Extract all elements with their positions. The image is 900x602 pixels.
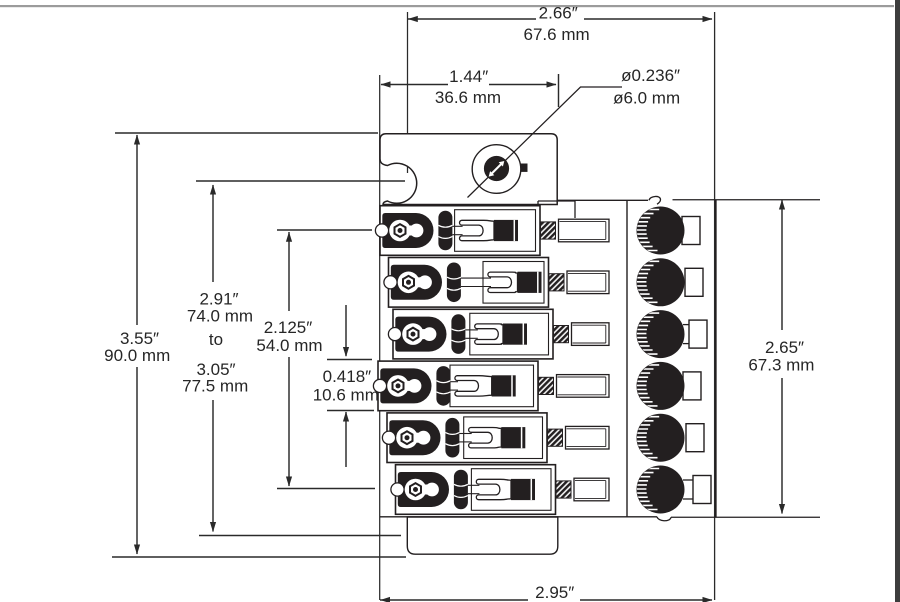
saddle row 2 clamp — [391, 265, 442, 300]
saddle row 6 lock pill — [454, 470, 468, 510]
saddle row 3 tuner screw stub — [572, 323, 610, 346]
plate right shoulder step — [537, 201, 539, 205]
saddle row 1 left screw bump — [375, 224, 388, 237]
saddle row 5 lock pill — [445, 418, 459, 458]
housing top line — [557, 199, 648, 201]
saddle row 5 fork — [469, 428, 502, 448]
dim 0.418in — [345, 305, 347, 356]
svg-text:67.6 mm: 67.6 mm — [524, 25, 590, 44]
svg-text:67.3 mm: 67.3 mm — [748, 356, 814, 375]
fine tuner 6 knob — [637, 466, 685, 514]
extension line right x713 — [714, 12, 716, 600]
saddle row 1 string block — [494, 220, 518, 241]
saddle row 1 base box — [380, 206, 540, 256]
saddle row 6 left screw bump — [391, 483, 404, 496]
saddle row 5 knurled insert — [548, 429, 563, 446]
fine tuner 5 knob — [637, 414, 685, 462]
saddle row 1 keyhole slot — [389, 220, 411, 242]
saddle row 6 hex socket — [410, 483, 421, 496]
saddle row 6 keyhole slot — [405, 479, 427, 501]
fine tuner 3 square — [689, 320, 707, 348]
saddle row 6 base box — [396, 465, 556, 515]
tuner screw curl bottom — [657, 517, 671, 521]
knurl ticks — [632, 210, 659, 251]
page right dark bar — [895, 0, 900, 602]
fine tuner 3 knob — [637, 310, 685, 358]
page top grey rule — [0, 5, 894, 7]
saddle row 2 string block — [518, 272, 542, 293]
saddle row 5 clamp — [389, 420, 440, 455]
dim 2.95in bottom — [380, 599, 528, 601]
saddle row 2 keyhole slot — [398, 272, 420, 294]
tuner screw curl top — [649, 196, 661, 204]
saddle row 1 string lines — [452, 225, 462, 227]
svg-text:ø6.0 mm: ø6.0 mm — [613, 88, 680, 107]
saddle row 1 knurled insert — [541, 222, 556, 239]
fine tuner 2 square — [685, 268, 703, 296]
leader line to hole label — [468, 87, 623, 198]
svg-text:ø0.236″: ø0.236″ — [621, 66, 680, 85]
saddle row 6 string block — [511, 479, 535, 500]
saddle row 3 lock pill — [451, 314, 465, 354]
dim 3.55in left — [136, 135, 138, 325]
saddle row 5 keyhole slot — [396, 427, 418, 449]
fine tuner 4 knob — [637, 362, 685, 410]
svg-text:2.65″: 2.65″ — [765, 338, 804, 357]
saddle row 4 base box — [378, 361, 538, 411]
white double arrow in hole — [492, 164, 502, 174]
saddle row 6 clamp — [398, 472, 449, 507]
svg-text:36.6 mm: 36.6 mm — [435, 88, 501, 107]
saddle row 3 clamp — [395, 317, 446, 352]
saddle row 5 string block — [501, 427, 525, 448]
fine tuner 2 knob — [637, 258, 685, 306]
saddle row 6 fork — [476, 479, 511, 499]
dim 1.44in — [381, 84, 448, 86]
saddle row 3 keyhole slot — [402, 323, 424, 345]
sustain block — [407, 517, 558, 554]
fine tuner 6 square — [693, 476, 711, 504]
svg-text:0.418″: 0.418″ — [323, 367, 372, 386]
saddle row 2 lock pill — [447, 263, 461, 303]
svg-text:1.44″: 1.44″ — [449, 67, 488, 86]
saddle row 4 tuner screw stub — [557, 375, 610, 398]
saddle row 6 knurled insert — [556, 481, 571, 498]
svg-text:10.6 mm: 10.6 mm — [313, 386, 379, 405]
saddle row 1 hex socket — [395, 224, 406, 237]
svg-text:77.5 mm: 77.5 mm — [182, 376, 248, 395]
saddle row 5 tuner screw stub — [566, 426, 610, 449]
knurl ticks — [632, 469, 659, 510]
saddle row 5 left screw bump — [382, 431, 395, 444]
saddle row 4 string lines — [450, 381, 458, 383]
mounting hole outer circle — [472, 145, 521, 194]
saddle row 2 tuner screw stub — [567, 271, 609, 294]
base bottom line — [380, 516, 657, 518]
saddle row 3 base box — [393, 309, 553, 359]
fine tuner 4 square — [683, 372, 701, 400]
knurl ticks — [632, 313, 659, 354]
svg-text:2.125″: 2.125″ — [264, 318, 313, 337]
saddle row 1 clamp — [382, 213, 433, 248]
saddle row 4 left screw bump — [373, 379, 386, 392]
knurl ticks — [632, 261, 659, 302]
saddle row 4 clamp — [380, 368, 431, 403]
extension line x407.5 — [407, 12, 409, 173]
mounting hole inner black circle — [484, 156, 509, 181]
saddle row 2 hex socket — [403, 276, 414, 289]
saddle row 6 insert liner — [471, 469, 551, 511]
saddle row 3 left screw bump — [388, 328, 401, 341]
saddle row 5 base box — [387, 413, 547, 463]
saddle row 2 base box — [389, 258, 549, 308]
dim 2.125in — [288, 232, 290, 311]
saddle row 3 string block — [503, 324, 527, 345]
saddle row 3 string lines — [465, 329, 477, 331]
saddle row 1 tuner screw stub — [559, 219, 610, 242]
saddle row 3 knurled insert — [554, 326, 569, 343]
saddle row 6 string lines — [468, 484, 480, 486]
saddle row 1 insert liner — [455, 210, 536, 252]
bridge top plate with notch — [380, 134, 557, 205]
dim 2.65in right — [781, 200, 783, 330]
dim 2.66in top — [408, 18, 536, 20]
saddle row 4 lock pill — [436, 366, 450, 406]
saddle row 5 hex socket — [402, 431, 413, 444]
saddle row 2 knurled insert — [549, 274, 564, 291]
saddle row 6 tuner screw stub — [574, 478, 609, 501]
saddle row 2 string lines — [461, 277, 491, 279]
saddle row 3 hex socket — [408, 328, 419, 341]
svg-text:90.0 mm: 90.0 mm — [104, 346, 170, 365]
knurl ticks — [632, 365, 659, 406]
mounting hole tab — [521, 164, 528, 172]
saddle row 1 fork — [460, 220, 495, 240]
svg-text:74.0 mm: 74.0 mm — [187, 307, 253, 326]
dim 2.91-3.05 — [212, 185, 214, 282]
saddle row 4 hex socket — [393, 380, 404, 393]
saddle row 4 insert liner — [450, 365, 534, 407]
saddle row 1 lock pill — [438, 211, 452, 251]
tuner housing left edge — [626, 200, 628, 517]
tuner housing right edge — [715, 200, 717, 517]
fine tuner 1 square — [682, 217, 700, 245]
saddle row 3 insert liner — [470, 313, 549, 355]
saddle row 2 insert liner — [483, 262, 544, 304]
saddle row 4 fork — [455, 376, 492, 396]
saddle row 4 keyhole slot — [387, 375, 409, 397]
svg-text:2.66″: 2.66″ — [539, 4, 578, 23]
saddle row 3 fork — [475, 324, 503, 344]
extension line left x379.7 — [379, 75, 381, 600]
svg-text:2.95″: 2.95″ — [535, 583, 574, 602]
saddle row 2 fork — [488, 272, 518, 292]
svg-text:54.0 mm: 54.0 mm — [256, 336, 322, 355]
saddle row 2 left screw bump — [384, 276, 397, 289]
saddle row 4 knurled insert — [539, 377, 554, 394]
saddle row 4 string block — [492, 375, 516, 396]
saddle row 5 string lines — [459, 433, 471, 435]
knurl ticks — [632, 417, 659, 458]
fine tuner 5 square — [686, 424, 704, 452]
fine tuner 1 knob — [637, 207, 685, 255]
svg-text:to: to — [209, 330, 223, 349]
saddle row 5 insert liner — [464, 417, 543, 459]
